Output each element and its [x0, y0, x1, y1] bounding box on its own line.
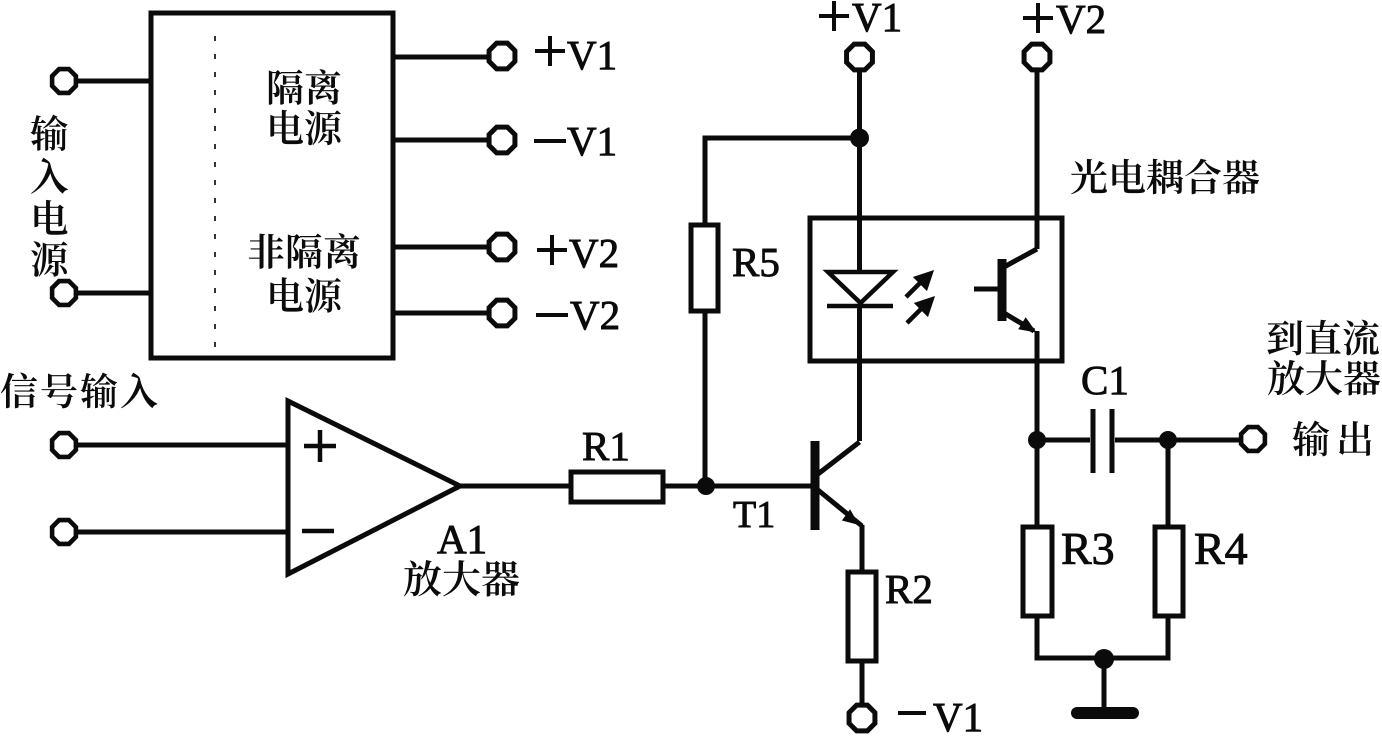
wire input-power bottom to box: [78, 291, 151, 296]
power supply module box: [151, 13, 393, 358]
terminal signal - input: [52, 520, 76, 544]
label isolated supply line1 隔离: [269, 69, 341, 104]
LED of optocoupler: [827, 272, 893, 306]
resistor R4: [1155, 527, 1183, 616]
label signal input 信号输入: [1, 373, 157, 409]
plus sign of top +V2 label: [1023, 3, 1053, 33]
svg-text:V2: V2: [569, 230, 619, 276]
terminal +V2 top: [1024, 44, 1050, 70]
junction node emitter/C1/R3: [1028, 431, 1046, 449]
plus sign of top +V1 label: [819, 1, 849, 31]
svg-text:V1: V1: [852, 0, 902, 40]
svg-text:V1: V1: [933, 694, 983, 737]
svg-text:R1: R1: [582, 423, 630, 469]
wire junction down to R4: [1166, 440, 1171, 527]
wire junction to C1 left plate: [1037, 438, 1090, 443]
wire LED cathode down to T1 collector: [857, 306, 862, 441]
wire ground stem: [1102, 658, 1107, 708]
wire input-power top to box: [78, 79, 151, 84]
minus sign of -V2 label: [536, 313, 568, 317]
wire junction down to R3: [1035, 440, 1040, 527]
capacitor C1: [1093, 409, 1112, 473]
op-amp A1 triangle: [288, 401, 460, 574]
label isolated supply line2 电源: [270, 110, 340, 145]
wire +V1 rail to R5: [705, 138, 860, 225]
resistor R5: [691, 225, 718, 311]
junction node C1/R4/output: [1159, 431, 1177, 449]
wire phototransistor emitter down: [1035, 331, 1040, 440]
terminal input-power bottom: [52, 281, 76, 305]
wire box to +V1 terminal: [393, 55, 488, 60]
svg-text:A1: A1: [437, 516, 487, 562]
terminal -V1 bottom: [849, 705, 875, 731]
dashed divider inside power box: [214, 36, 216, 350]
wire box to -V2 terminal: [393, 311, 488, 316]
resistor R2: [848, 572, 876, 661]
svg-text:V2: V2: [570, 292, 620, 338]
terminal input-power top: [52, 69, 76, 93]
terminal +V1 output: [489, 43, 515, 69]
ground: [1077, 707, 1133, 719]
wire box to -V1 terminal: [393, 138, 488, 143]
svg-text:V2: V2: [1056, 0, 1106, 42]
plus sign of +V2 label: [537, 235, 567, 265]
wire R3 bottom to ground node: [1037, 616, 1104, 658]
label to DC line1 到直流: [1267, 320, 1379, 356]
svg-text:R2: R2: [885, 566, 933, 612]
terminal -V1 output: [489, 127, 515, 153]
minus sign of -V1 label: [534, 139, 566, 143]
light arrow 2: [907, 300, 932, 324]
op-amp - input sign: [302, 529, 334, 534]
junction node base/R5: [697, 477, 715, 495]
terminal signal + input: [52, 433, 76, 457]
label output 输出: [1292, 421, 1371, 457]
plus sign of +V1 label: [535, 36, 565, 66]
wire T1 emitter to R2: [860, 525, 865, 572]
wire op-amp output to R1: [460, 484, 571, 489]
terminal +V2 output: [489, 234, 515, 260]
label optocoupler 光电耦合器: [1071, 159, 1259, 195]
transistor T1: [815, 441, 862, 530]
junction node ground: [1094, 649, 1114, 669]
svg-text:V1: V1: [567, 118, 617, 164]
label amplifier 放大器: [404, 560, 519, 596]
label non-isolated supply line2 电源: [270, 277, 340, 312]
svg-text:R4: R4: [1194, 523, 1248, 574]
phototransistor emitter arrowhead: [1018, 317, 1036, 332]
minus sign of bottom -V1 label: [898, 711, 926, 715]
phototransistor of optocoupler: [974, 249, 1037, 331]
optocoupler U1 box: [810, 218, 1062, 361]
wire R5 to base junction: [703, 311, 708, 486]
wire R1 to T1 base: [663, 484, 811, 489]
wire +V1 terminal down to LED: [857, 72, 862, 272]
terminal -V2 output: [489, 300, 515, 326]
light arrow 1: [906, 274, 931, 298]
resistor R3: [1023, 527, 1052, 616]
resistor R1: [571, 472, 663, 502]
op-amp + input sign: [304, 430, 336, 462]
label input power 输入电源 (vertical): [30, 115, 67, 277]
wire signal - input to op-amp: [78, 530, 288, 535]
label to DC line2 放大器: [1268, 360, 1380, 396]
svg-text:R5: R5: [732, 239, 780, 285]
svg-text:T1: T1: [733, 494, 775, 536]
svg-text:C1: C1: [1081, 357, 1129, 403]
wire signal + input to op-amp: [78, 443, 288, 448]
junction node +V1/R5: [850, 129, 869, 148]
svg-text:R3: R3: [1061, 523, 1115, 574]
T1 emitter arrowhead: [842, 509, 859, 525]
terminal output: [1241, 427, 1265, 451]
wire R4 bottom to ground node: [1104, 616, 1168, 658]
wire +V2 terminal down to phototransistor collector: [1035, 72, 1040, 249]
label non-isolated supply line1 非隔离: [249, 233, 360, 268]
wire C1 right plate to junction: [1115, 438, 1168, 443]
svg-text:V1: V1: [567, 32, 617, 78]
wire box to +V2 terminal: [393, 245, 488, 250]
wire R2 to -V1 terminal: [860, 661, 865, 703]
terminal +V1 top: [847, 44, 873, 70]
wire junction to output terminal: [1168, 438, 1239, 443]
